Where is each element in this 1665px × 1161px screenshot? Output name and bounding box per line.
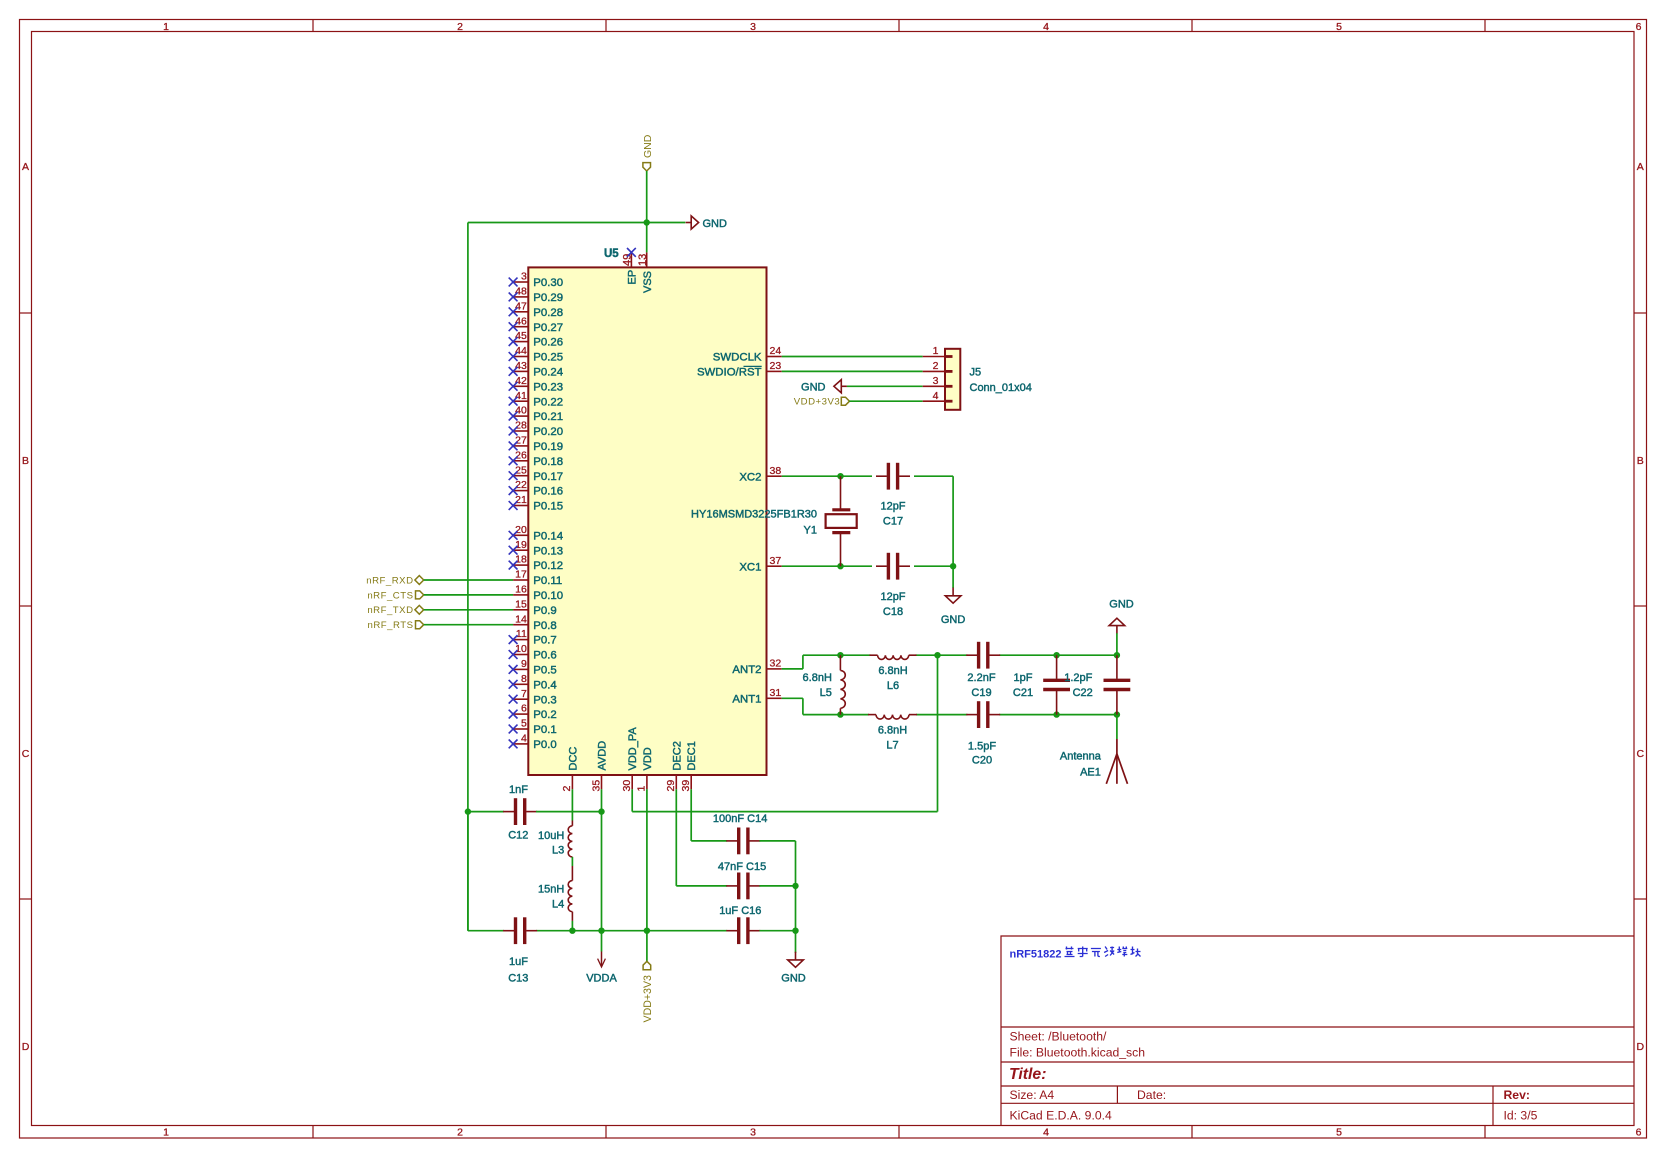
svg-text:37: 37 — [770, 555, 782, 567]
svg-text:5: 5 — [1336, 21, 1342, 33]
svg-text:1uF C16: 1uF C16 — [719, 905, 761, 917]
svg-text:B: B — [22, 455, 29, 467]
wire right cap rail — [795, 841, 797, 953]
wire — [424, 594, 513, 596]
svg-text:C12: C12 — [508, 829, 528, 841]
svg-text:18: 18 — [515, 554, 527, 566]
svg-text:A: A — [1637, 161, 1644, 173]
pin 13 VSS — [646, 252, 648, 267]
svg-text:P0.6: P0.6 — [533, 650, 556, 662]
svg-text:P0.8: P0.8 — [533, 620, 556, 632]
wire — [424, 609, 513, 611]
title block — [1001, 936, 1634, 1126]
svg-text:32: 32 — [770, 658, 782, 670]
svg-text:13: 13 — [637, 254, 649, 266]
power symbol GND (J5 pin3) — [841, 385, 847, 387]
svg-text:L7: L7 — [886, 740, 898, 752]
svg-text:L3: L3 — [552, 845, 564, 857]
svg-text:8: 8 — [521, 673, 527, 685]
wire XC2 row — [782, 475, 872, 477]
svg-text:P0.12: P0.12 — [533, 560, 563, 572]
svg-text:26: 26 — [515, 449, 527, 461]
svg-text:6.8nH: 6.8nH — [803, 672, 832, 684]
connector J5 body — [945, 349, 960, 410]
pin 25 P0.17 — [513, 475, 528, 477]
wire bottom row — [803, 714, 869, 716]
svg-text:GND: GND — [941, 614, 966, 626]
svg-text:VDD: VDD — [642, 747, 654, 770]
wire — [847, 385, 923, 387]
svg-text:46: 46 — [515, 315, 527, 327]
svg-text:2.2nF: 2.2nF — [967, 672, 995, 684]
wire — [571, 921, 573, 931]
svg-text:4: 4 — [933, 390, 939, 402]
svg-text:1: 1 — [933, 345, 939, 357]
inductor L6 6.8nH — [870, 654, 878, 656]
svg-text:C19: C19 — [971, 687, 991, 699]
svg-text:D: D — [1637, 1041, 1645, 1053]
svg-text:21: 21 — [515, 494, 527, 506]
capacitor C17 12pF — [887, 463, 890, 490]
svg-text:41: 41 — [515, 390, 527, 402]
hierarchical label VDD+3V3 (J5 pin4) — [841, 397, 849, 405]
pin 40 P0.21 — [513, 415, 528, 417]
wire — [424, 624, 513, 626]
svg-text:25: 25 — [515, 464, 527, 476]
svg-text:P0.3: P0.3 — [533, 694, 556, 706]
svg-text:P0.21: P0.21 — [533, 411, 563, 423]
svg-text:C: C — [1637, 748, 1645, 760]
svg-text:1pF: 1pF — [1014, 672, 1033, 684]
capacitor C16 1uF — [726, 930, 728, 932]
svg-text:4: 4 — [1043, 1127, 1049, 1139]
svg-text:Y1: Y1 — [804, 525, 817, 537]
svg-text:20: 20 — [515, 524, 527, 536]
pin 7 P0.3 — [513, 698, 528, 700]
pin 45 P0.26 — [513, 341, 528, 343]
pin 42 P0.23 — [513, 385, 528, 387]
svg-text:VSS: VSS — [642, 271, 654, 293]
pin 38 XC2 — [767, 475, 782, 477]
wire XC1 row — [782, 565, 872, 567]
svg-text:GND: GND — [1109, 599, 1134, 611]
pin 19 P0.13 — [513, 549, 528, 551]
svg-text:VDD+3V3: VDD+3V3 — [642, 975, 654, 1023]
svg-text:22: 22 — [515, 479, 527, 491]
svg-text:P0.2: P0.2 — [533, 709, 556, 721]
pin 6 P0.2 — [513, 713, 528, 715]
crystal Y1 — [840, 476, 842, 509]
svg-text:14: 14 — [515, 613, 527, 625]
pin 44 P0.25 — [513, 356, 528, 358]
wire GND horizontal — [468, 222, 685, 224]
svg-text:P0.16: P0.16 — [533, 486, 563, 498]
svg-text:P0.17: P0.17 — [533, 471, 563, 483]
capacitor C19 2.2nF — [977, 642, 980, 669]
wire AVDD drop — [601, 789, 603, 930]
svg-text:P0.5: P0.5 — [533, 665, 556, 677]
svg-text:45: 45 — [515, 330, 527, 342]
hierarchical label GND (top) — [643, 163, 651, 171]
wire VSS drop — [646, 223, 648, 253]
svg-text:1nF: 1nF — [509, 784, 528, 796]
svg-text:P0.18: P0.18 — [533, 456, 563, 468]
svg-text:C20: C20 — [972, 755, 992, 767]
pin 39 DEC1 — [690, 775, 692, 789]
pin 49 EP (no connect) — [630, 252, 632, 267]
svg-text:3: 3 — [933, 375, 939, 387]
wire VDD_PA route — [631, 789, 633, 811]
svg-text:3: 3 — [750, 21, 756, 33]
svg-text:3: 3 — [521, 271, 527, 283]
pin 11 P0.7 — [513, 639, 528, 641]
svg-text:DCC: DCC — [567, 747, 579, 771]
svg-text:nRF_TXD: nRF_TXD — [367, 605, 413, 616]
svg-text:9: 9 — [521, 658, 527, 670]
inductor L3 10uH — [571, 821, 573, 826]
svg-text:P0.15: P0.15 — [533, 501, 563, 513]
svg-text:1: 1 — [163, 21, 169, 33]
svg-text:6: 6 — [521, 703, 527, 715]
pin 2 J5 — [923, 370, 945, 372]
power symbol VDDA — [601, 931, 603, 952]
inductor L7 6.8nH — [868, 714, 876, 716]
svg-text:File: Bluetooth.kicad_sch: File: Bluetooth.kicad_sch — [1010, 1045, 1146, 1059]
pin 3 J5 — [923, 385, 945, 387]
svg-text:nRF_RXD: nRF_RXD — [366, 575, 413, 586]
svg-text:DEC1: DEC1 — [686, 741, 698, 770]
capacitor C14 100nF — [737, 828, 740, 855]
svg-text:SWDCLK: SWDCLK — [713, 352, 762, 364]
svg-text:L4: L4 — [552, 898, 564, 910]
svg-text:P0.0: P0.0 — [533, 739, 556, 751]
svg-text:39: 39 — [680, 780, 692, 792]
svg-text:Size: A4: Size: A4 — [1010, 1088, 1055, 1102]
ground GND (crystal) — [952, 566, 954, 588]
svg-text:P0.25: P0.25 — [533, 352, 563, 364]
svg-text:6.8nH: 6.8nH — [878, 665, 907, 677]
wire SWDCLK — [782, 356, 923, 358]
svg-text:10uH: 10uH — [538, 830, 564, 842]
pin 3 P0.30 — [513, 281, 528, 283]
svg-text:P0.1: P0.1 — [533, 724, 556, 736]
svg-text:38: 38 — [770, 465, 782, 477]
svg-text:1: 1 — [636, 786, 648, 792]
capacitor C12 1nF — [468, 811, 504, 813]
pin 46 P0.27 — [513, 326, 528, 328]
wire vddpa riser — [937, 655, 939, 811]
pin 23 SWDIO/RST — [767, 370, 782, 372]
svg-text:P0.28: P0.28 — [533, 307, 563, 319]
pin 18 P0.12 — [513, 564, 528, 566]
svg-text:4: 4 — [521, 733, 527, 745]
pin 26 P0.18 — [513, 460, 528, 462]
svg-text:VDDA: VDDA — [586, 973, 617, 985]
svg-text:L5: L5 — [820, 687, 832, 699]
svg-text:P0.19: P0.19 — [533, 441, 563, 453]
svg-text:48: 48 — [515, 286, 527, 298]
svg-text:5: 5 — [521, 718, 527, 730]
power symbol GND (antenna top) — [1116, 633, 1118, 655]
svg-text:19: 19 — [515, 539, 527, 551]
pin 9 P0.5 — [513, 668, 528, 670]
capacitor C15 47nF — [737, 873, 740, 900]
svg-text:D: D — [22, 1041, 30, 1053]
svg-text:P0.14: P0.14 — [533, 530, 563, 542]
svg-text:6: 6 — [1636, 21, 1642, 33]
svg-text:SWDIO/RST: SWDIO/RST — [697, 367, 762, 379]
svg-text:Title:: Title: — [1009, 1066, 1046, 1083]
svg-text:17: 17 — [515, 569, 527, 581]
svg-text:C21: C21 — [1013, 687, 1033, 699]
pin 14 P0.8 — [513, 624, 528, 626]
wire DEC1 — [690, 789, 692, 841]
svg-text:P0.24: P0.24 — [533, 367, 563, 379]
svg-text:C18: C18 — [883, 606, 903, 618]
pin 1 J5 — [923, 356, 945, 358]
svg-text:100nF C14: 100nF C14 — [713, 813, 767, 825]
wire VDD drop — [646, 789, 648, 930]
capacitor C18 12pF — [887, 553, 890, 580]
ground GND (bottom) — [795, 952, 797, 960]
pin 48 P0.29 — [513, 296, 528, 298]
pin 16 P0.10 — [513, 594, 528, 596]
svg-text:C13: C13 — [508, 973, 528, 985]
power symbol GND (right arrow) — [686, 222, 692, 224]
svg-text:Rev:: Rev: — [1504, 1088, 1530, 1102]
svg-text:40: 40 — [515, 405, 527, 417]
wire top row — [803, 654, 871, 656]
pin 24 SWDCLK — [767, 356, 782, 358]
wire GND vertical — [646, 171, 648, 223]
pin 2 DCC — [571, 775, 573, 789]
inductor L5 6.8nH — [837, 652, 843, 658]
svg-text:47nF C15: 47nF C15 — [718, 861, 766, 873]
pin 17 P0.11 — [513, 579, 528, 581]
wire ANT1 jog — [782, 697, 803, 699]
svg-text:P0.20: P0.20 — [533, 426, 563, 438]
pin 31 ANT1 — [767, 697, 782, 699]
svg-text:3: 3 — [750, 1127, 756, 1139]
pin 4 J5 — [923, 400, 945, 402]
pin 47 P0.28 — [513, 311, 528, 313]
svg-text:AVDD: AVDD — [597, 741, 609, 771]
pin 4 P0.0 — [513, 743, 528, 745]
svg-text:nRF_CTS: nRF_CTS — [367, 590, 413, 601]
svg-text:Conn_01x04: Conn_01x04 — [970, 382, 1032, 394]
svg-text:11: 11 — [516, 628, 527, 640]
svg-text:HY16MSMD3225FB1R30: HY16MSMD3225FB1R30 — [691, 509, 817, 521]
svg-text:P0.27: P0.27 — [533, 322, 563, 334]
junction — [837, 473, 843, 479]
svg-text:B: B — [1637, 455, 1644, 467]
svg-text:2: 2 — [457, 1127, 463, 1139]
hierarchical label VDD+3V3 (bottom) — [646, 931, 648, 962]
wire SWDIO/RST — [782, 370, 923, 372]
wire — [849, 400, 922, 402]
bottom rail — [467, 812, 469, 931]
pin 1 VDD — [646, 775, 648, 789]
svg-text:44: 44 — [515, 345, 527, 357]
IC U5 nRF51822 body — [528, 267, 766, 775]
pin 22 P0.16 — [513, 490, 528, 492]
svg-text:12pF: 12pF — [880, 591, 905, 603]
svg-text:15nH: 15nH — [538, 884, 564, 896]
pin 5 P0.1 — [513, 728, 528, 730]
pin 35 AVDD — [601, 775, 603, 789]
svg-text:1.2pF: 1.2pF — [1064, 672, 1092, 684]
junction — [950, 563, 956, 569]
svg-text:P0.11: P0.11 — [533, 575, 562, 587]
svg-text:Sheet: /Bluetooth/: Sheet: /Bluetooth/ — [1010, 1030, 1108, 1044]
svg-text:P0.13: P0.13 — [533, 545, 563, 557]
svg-text:P0.26: P0.26 — [533, 337, 563, 349]
svg-text:2: 2 — [457, 21, 463, 33]
svg-text:P0.23: P0.23 — [533, 381, 563, 393]
svg-text:Date:: Date: — [1137, 1088, 1166, 1102]
pin 10 P0.6 — [513, 654, 528, 656]
antenna AE1 — [1116, 715, 1118, 739]
junction — [644, 219, 650, 225]
hierarchical label nRF_RTS — [416, 621, 424, 629]
capacitor C21 1pF — [1053, 652, 1059, 658]
svg-text:6: 6 — [1636, 1127, 1642, 1139]
capacitor C13 1uF — [514, 917, 517, 944]
svg-text:35: 35 — [590, 780, 602, 792]
wire DEC2 — [675, 789, 677, 886]
hierarchical label nRF_TXD — [415, 605, 424, 614]
svg-text:J5: J5 — [970, 367, 982, 379]
svg-text:XC2: XC2 — [739, 471, 761, 483]
pin 21 P0.15 — [513, 505, 528, 507]
wire — [571, 857, 573, 866]
svg-text:C: C — [22, 748, 30, 760]
hierarchical label nRF_RXD — [415, 576, 424, 585]
svg-text:12pF: 12pF — [880, 501, 905, 513]
svg-text:28: 28 — [515, 420, 527, 432]
svg-text:EP: EP — [627, 270, 639, 285]
svg-text:4: 4 — [1043, 21, 1049, 33]
svg-text:16: 16 — [515, 584, 527, 596]
svg-text:P0.7: P0.7 — [533, 635, 556, 647]
pin 28 P0.20 — [513, 430, 528, 432]
svg-text:XC1: XC1 — [739, 561, 761, 573]
svg-text:15: 15 — [515, 598, 527, 610]
junction — [934, 652, 940, 658]
pin 29 DEC2 — [675, 775, 677, 789]
svg-text:GND: GND — [781, 973, 806, 985]
svg-text:GND: GND — [801, 381, 826, 393]
svg-text:P0.9: P0.9 — [533, 605, 556, 617]
wire — [424, 579, 513, 581]
svg-text:Id: 3/5: Id: 3/5 — [1504, 1109, 1538, 1123]
pin 37 XC1 — [767, 565, 782, 567]
svg-text:nRF_RTS: nRF_RTS — [368, 620, 414, 631]
svg-text:AE1: AE1 — [1080, 766, 1101, 778]
svg-text:P0.10: P0.10 — [533, 590, 563, 602]
svg-text:27: 27 — [515, 435, 527, 447]
svg-text:10: 10 — [515, 643, 527, 655]
svg-text:43: 43 — [515, 360, 527, 372]
svg-text:GND: GND — [642, 134, 654, 158]
svg-text:L6: L6 — [887, 680, 899, 692]
junction — [837, 563, 843, 569]
pin 43 P0.24 — [513, 370, 528, 372]
pin 15 P0.9 — [513, 609, 528, 611]
svg-text:VDD+3V3: VDD+3V3 — [794, 397, 840, 408]
capacitor C20 1.5pF — [977, 701, 980, 728]
svg-text:A: A — [22, 161, 29, 173]
pin 32 ANT2 — [767, 668, 782, 670]
svg-text:C22: C22 — [1073, 687, 1093, 699]
svg-text:6.8nH: 6.8nH — [878, 725, 907, 737]
wire left bus vertical — [467, 223, 469, 931]
wire right drop — [952, 476, 954, 566]
svg-text:P0.22: P0.22 — [533, 396, 563, 408]
svg-text:2: 2 — [933, 360, 939, 372]
svg-text:KiCad E.D.A. 9.0.4: KiCad E.D.A. 9.0.4 — [1010, 1109, 1113, 1123]
svg-text:1: 1 — [163, 1127, 169, 1139]
svg-text:Antenna: Antenna — [1060, 750, 1102, 762]
svg-text:VDD_PA: VDD_PA — [627, 727, 639, 771]
svg-text:2: 2 — [561, 786, 573, 792]
wire ANT2 jog — [782, 668, 803, 670]
svg-text:ANT2: ANT2 — [732, 664, 761, 676]
svg-text:DEC2: DEC2 — [671, 741, 683, 770]
svg-text:30: 30 — [621, 780, 633, 792]
svg-text:7: 7 — [521, 688, 527, 700]
wire DCC drop — [571, 789, 573, 820]
svg-text:GND: GND — [703, 218, 728, 230]
pin 30 VDD_PA — [631, 775, 633, 789]
svg-text:1uF: 1uF — [509, 956, 528, 968]
svg-text:31: 31 — [770, 687, 782, 699]
svg-text:42: 42 — [515, 375, 527, 387]
hierarchical label nRF_CTS — [416, 591, 424, 599]
svg-text:29: 29 — [665, 780, 677, 792]
svg-text:C17: C17 — [883, 516, 903, 528]
svg-text:24: 24 — [770, 345, 782, 357]
svg-text:1.5pF: 1.5pF — [968, 740, 996, 752]
pin 20 P0.14 — [513, 534, 528, 536]
svg-text:U5: U5 — [604, 248, 619, 260]
svg-text:5: 5 — [1336, 1127, 1342, 1139]
svg-text:ANT1: ANT1 — [732, 693, 761, 705]
pin 41 P0.22 — [513, 400, 528, 402]
inductor L4 15nH — [571, 866, 573, 881]
svg-text:P0.30: P0.30 — [533, 277, 563, 289]
pin 8 P0.4 — [513, 683, 528, 685]
svg-text:nRF51822: nRF51822 — [1010, 949, 1062, 961]
pin 27 P0.19 — [513, 445, 528, 447]
svg-text:47: 47 — [515, 300, 527, 312]
svg-text:23: 23 — [770, 360, 782, 372]
svg-text:P0.4: P0.4 — [533, 679, 556, 691]
capacitor C22 1.2pF — [1114, 652, 1120, 658]
svg-text:P0.29: P0.29 — [533, 292, 563, 304]
